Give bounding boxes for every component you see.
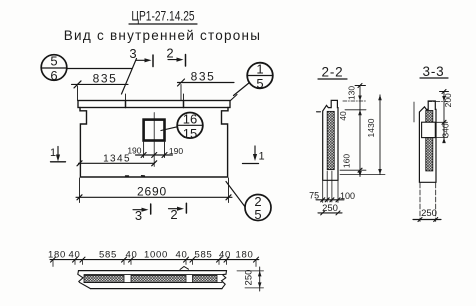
svg-text:1345: 1345 [103, 154, 131, 165]
svg-text:40: 40 [176, 250, 188, 261]
title ЦР1-27.14.25 [131, 8, 194, 24]
section mark 3 (bottom) [133, 204, 151, 223]
section mark 2 (top) [166, 46, 185, 67]
2-2 bottom dims 75/100 [309, 171, 355, 203]
svg-text:1: 1 [256, 62, 263, 77]
bottom line [91, 288, 223, 290]
svg-text:6: 6 [50, 68, 57, 83]
small check mark on top line [180, 267, 189, 270]
svg-text:180: 180 [48, 250, 66, 261]
2-2 dim 250 [318, 203, 342, 215]
svg-text:5: 5 [256, 76, 263, 91]
svg-text:2-2: 2-2 [322, 65, 344, 80]
svg-text:1: 1 [50, 147, 56, 159]
svg-text:200: 200 [443, 93, 453, 107]
leader to circle 1/5 [231, 95, 238, 101]
section 2-2 insulation strip [327, 111, 334, 169]
section mark 3 (top) [129, 46, 153, 67]
dimension 835 (left) [72, 72, 129, 101]
svg-text:835: 835 [191, 70, 216, 84]
panel face outline with corner notches [80, 108, 228, 178]
chain ticks [51, 257, 259, 262]
svg-text:2: 2 [166, 46, 173, 61]
svg-text:40: 40 [338, 111, 348, 121]
hatch band segment 3 [193, 275, 218, 282]
svg-text:190: 190 [169, 146, 183, 156]
svg-text:585: 585 [99, 250, 117, 261]
3-3 opening box [422, 122, 436, 137]
subtitle Вид с внутренней стороны [64, 28, 261, 43]
svg-text:1000: 1000 [144, 250, 168, 261]
svg-text:Вид с внутренней стороны: Вид с внутренней стороны [64, 28, 261, 43]
section mark 1 (right) [243, 146, 265, 164]
dimension 835 (right) [178, 70, 235, 101]
panel top band [78, 101, 230, 108]
3-3 right dims [428, 90, 453, 144]
svg-text:180: 180 [236, 250, 254, 261]
svg-text:3: 3 [129, 46, 136, 61]
3-3 insulation strip lower [426, 138, 433, 171]
section 2-2 body [323, 100, 338, 180]
svg-text:835: 835 [93, 72, 118, 86]
circle 2/5 [245, 194, 271, 222]
label 3-3 [423, 64, 445, 79]
svg-text:340: 340 [440, 123, 450, 137]
inner top line [84, 274, 223, 276]
2-2 right dims [338, 84, 385, 177]
svg-text:ЦР1-27.14.25: ЦР1-27.14.25 [131, 8, 194, 24]
svg-text:75: 75 [309, 190, 319, 200]
svg-text:5: 5 [254, 207, 261, 222]
band joint mark left [125, 101, 127, 108]
svg-text:3: 3 [135, 208, 142, 223]
small marks on bottom edge [126, 175, 129, 177]
section mark 1 (left) [50, 147, 66, 162]
3-3 left ext line [413, 102, 415, 122]
svg-text:5: 5 [50, 54, 57, 69]
hatch band segment 1 [84, 275, 124, 282]
dimension 2690 [76, 178, 232, 203]
bottom view dim 250 (right) [237, 267, 264, 291]
svg-text:100: 100 [340, 191, 355, 201]
dimension 1345 [77, 154, 157, 166]
svg-text:250: 250 [322, 203, 338, 214]
leader from circle 5/6 [67, 68, 132, 70]
label 2-2 [322, 65, 344, 80]
svg-text:130: 130 [347, 86, 357, 100]
svg-text:2: 2 [170, 207, 177, 222]
3-3 insulation strip upper [426, 111, 433, 123]
chain extension stubs [53, 260, 256, 267]
svg-text:2690: 2690 [137, 185, 167, 199]
section mark 2 (bottom) [169, 203, 187, 222]
svg-text:250: 250 [244, 270, 255, 286]
right end profile [222, 271, 227, 289]
bottom band lower line [84, 282, 222, 284]
bottom view body top line [79, 270, 227, 272]
3-3 dim 250 [413, 183, 441, 222]
dimension 190 190 under opening [127, 142, 183, 158]
circle 5/6 [41, 54, 67, 84]
circle 1/5 [247, 62, 273, 92]
leader to circle 16/15 [161, 127, 177, 131]
section 3-3 body [419, 101, 436, 182]
small tick left of 2-2 [317, 111, 321, 113]
svg-text:1: 1 [258, 151, 264, 163]
band joint mark right (section 2 line) [183, 101, 185, 108]
svg-text:1430: 1430 [366, 118, 376, 137]
opening square [144, 120, 165, 141]
circle 16/15 [177, 112, 203, 142]
leader to circle 2/5 [226, 182, 245, 207]
svg-text:160: 160 [342, 154, 352, 168]
joint slash at x=125 [122, 59, 137, 95]
svg-text:40: 40 [219, 250, 231, 261]
svg-text:16: 16 [183, 112, 197, 127]
left end profile [78, 271, 91, 289]
svg-text:585: 585 [195, 250, 213, 261]
bottom chain dimension line [48, 250, 259, 261]
title underline [129, 23, 197, 25]
centerline through opening [153, 113, 155, 167]
svg-text:40: 40 [69, 250, 81, 261]
svg-text:250: 250 [421, 208, 437, 219]
hatch band segment 2 [131, 275, 186, 282]
svg-text:3-3: 3-3 [423, 64, 445, 79]
svg-text:15: 15 [183, 126, 197, 141]
